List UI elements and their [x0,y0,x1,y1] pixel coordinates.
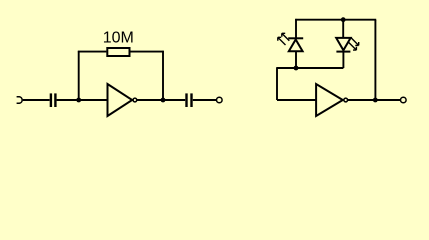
wire top rail right circuit [295,19,376,21]
wire node A up to feedback rail [78,51,80,100]
wire feedback rail right segment [130,51,163,53]
resistor R1 [107,48,129,56]
LED D1 [278,33,303,51]
wire node E up to top rail [374,20,376,100]
capacitor C1 [51,93,56,107]
wire feedback rail left segment [78,51,107,53]
inverter U2 [316,84,347,116]
wire rail down to D1 [295,19,297,38]
label 10M [103,30,134,47]
wire U1 output to node B [137,99,163,101]
wire mid rail down to U2 input level [276,67,278,100]
node A junction dot [76,98,81,103]
wire C1 to U1 input [57,99,107,101]
wire feedback down to node B [162,51,164,100]
wire C2 to output terminal [193,99,217,101]
output terminal J2 [217,97,223,103]
node B junction dot [161,98,166,103]
node C junction dot [341,17,346,22]
wire U2 output to node E [348,99,375,101]
wire D1 to node D [295,51,297,68]
wire to U2 input [277,99,316,101]
node E junction dot [373,98,378,103]
wire J1 to C1 [23,99,50,101]
output terminal J3 [401,97,407,103]
wire node E to output terminal [375,99,400,101]
capacitor C2 [187,93,192,107]
wire node B to C2 [163,99,185,101]
svg-text:10M: 10M [103,30,134,47]
input terminal J1 [17,97,23,104]
wire node C down to D2 [342,20,344,38]
node D junction dot [294,66,299,71]
wire mid rail [277,67,343,69]
inverter U1 [108,84,137,116]
LED D2 [336,38,359,52]
wire D2 to mid rail [342,52,344,68]
